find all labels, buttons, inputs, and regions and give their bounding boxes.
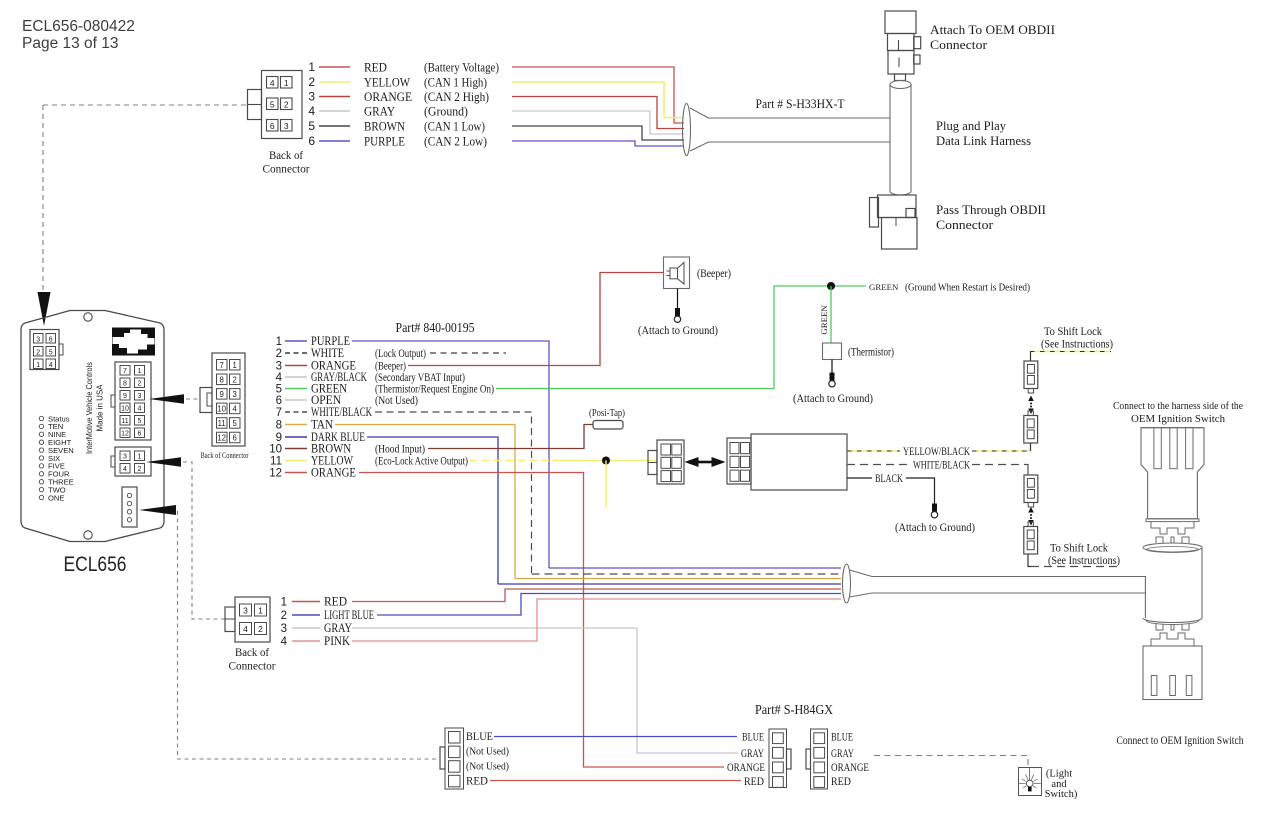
svg-text:LIGHT BLUE: LIGHT BLUE bbox=[324, 608, 374, 622]
wire BROWN pin5 to harness boot bbox=[512, 126, 684, 140]
svg-text:11: 11 bbox=[218, 419, 226, 428]
ECL656 4-pin port pins 4/2 bbox=[120, 464, 130, 474]
S-H84GX right pin 1 bbox=[814, 733, 825, 744]
S-H84GX connector right bbox=[811, 729, 828, 789]
arrow pointing down to ECL656 6-pin port bbox=[38, 292, 51, 326]
svg-text:6: 6 bbox=[233, 434, 237, 443]
svg-text:4: 4 bbox=[270, 78, 275, 88]
wire WHITE/BLACK from relay bbox=[847, 464, 910, 466]
ignition switch cylinder bbox=[1143, 543, 1202, 552]
svg-text:2: 2 bbox=[308, 75, 315, 89]
svg-text:(Not Used): (Not Used) bbox=[375, 393, 418, 407]
svg-text:4: 4 bbox=[49, 362, 53, 369]
svg-text:Connect to OEM Ignition Switch: Connect to OEM Ignition Switch bbox=[1117, 735, 1244, 747]
ignition switch slot bbox=[1186, 676, 1192, 696]
svg-text:RED: RED bbox=[466, 776, 488, 788]
ECL656 6-pin port pin 4 bbox=[46, 359, 56, 369]
ECL656 6-pin port pin 3 bbox=[34, 334, 44, 344]
P4 pin 4 bbox=[449, 775, 461, 787]
svg-text:Back of Connector: Back of Connector bbox=[201, 451, 249, 460]
harness trumpet top line bbox=[690, 108, 890, 118]
svg-text:(CAN 2 Low): (CAN 2 Low) bbox=[424, 134, 487, 148]
ECL656 12-pin port pins 7/1 bbox=[120, 366, 130, 376]
svg-text:9: 9 bbox=[220, 390, 224, 399]
svg-text:RED: RED bbox=[744, 776, 764, 788]
T harness vertical cylinder bbox=[890, 81, 911, 89]
svg-text:YELLOW: YELLOW bbox=[364, 75, 411, 89]
wire WHITE/BLACK pin7 to main bundle bbox=[375, 412, 532, 574]
svg-text:1: 1 bbox=[284, 78, 289, 88]
svg-text:8: 8 bbox=[276, 420, 282, 432]
J1 pin 1 bbox=[281, 77, 293, 89]
svg-text:OEM Ignition Switch: OEM Ignition Switch bbox=[1131, 413, 1225, 425]
S-H84GX left pin 1 bbox=[773, 733, 784, 744]
pass-through OBDII connector (bottom of T) bbox=[870, 198, 879, 228]
arrow to 12-pin connector bbox=[149, 394, 184, 403]
wire YELLOW pin2 to harness boot bbox=[512, 82, 684, 118]
svg-text:(Not Used): (Not Used) bbox=[466, 747, 509, 758]
svg-text:Back of: Back of bbox=[235, 647, 269, 659]
svg-text:9: 9 bbox=[276, 432, 282, 444]
ECL656 4-pin port bbox=[115, 447, 151, 476]
svg-text:3: 3 bbox=[308, 90, 315, 104]
shift lock connector C bbox=[1024, 475, 1038, 503]
ECL656 4-pin port pins 3/1 bbox=[120, 451, 130, 461]
ECL656 4-hole diagnostic port bbox=[122, 487, 137, 527]
svg-text:3: 3 bbox=[243, 606, 248, 616]
relay module 6-pin connector (right) bbox=[727, 438, 751, 484]
svg-text:Connector: Connector bbox=[936, 217, 994, 232]
svg-text:ORANGE: ORANGE bbox=[311, 466, 356, 480]
beeper SP1 bbox=[664, 257, 690, 289]
wire ORANGE pin3 to beeper bbox=[408, 273, 663, 366]
svg-text:GRAY: GRAY bbox=[324, 621, 352, 635]
wire GRAY P3 pin3 to S-H84GX connector bbox=[352, 628, 738, 753]
svg-text:ONE: ONE bbox=[48, 493, 64, 502]
P3 pin 4 bbox=[240, 623, 252, 635]
svg-text:PINK: PINK bbox=[324, 634, 350, 648]
connector J1 mounting tab bbox=[248, 90, 262, 120]
wire BLACK to ground bbox=[906, 478, 935, 504]
S-H84GX connector left bbox=[769, 729, 787, 788]
svg-text:3: 3 bbox=[123, 454, 127, 461]
svg-text:1: 1 bbox=[258, 606, 263, 616]
P3 pin 2 bbox=[255, 623, 267, 635]
svg-text:(See Instructions): (See Instructions) bbox=[1048, 555, 1120, 567]
svg-text:3: 3 bbox=[233, 390, 237, 399]
stub from connector D down bbox=[1028, 554, 1031, 567]
wire BLUE P4 to S-H84GX bbox=[494, 736, 737, 738]
svg-text:11: 11 bbox=[270, 456, 282, 468]
svg-text:1: 1 bbox=[233, 361, 237, 370]
P2 pins 9/3 bbox=[217, 389, 228, 400]
P4 pin 1 bbox=[449, 732, 461, 744]
svg-text:1: 1 bbox=[281, 597, 287, 609]
svg-text:6: 6 bbox=[49, 336, 53, 343]
svg-text:4: 4 bbox=[308, 104, 315, 118]
svg-text:RED: RED bbox=[364, 60, 387, 74]
left 6-pin tab bbox=[648, 451, 657, 475]
ECL656 6-pin port pin 1 bbox=[34, 359, 44, 369]
svg-text:10: 10 bbox=[217, 405, 226, 414]
wire PINK P3 pin4 to main bundle bbox=[352, 599, 841, 641]
wire RED P4 to S-H84GX bbox=[490, 780, 741, 782]
svg-text:5: 5 bbox=[49, 349, 53, 356]
P2 pins 7/1 bbox=[217, 360, 228, 371]
OEM ignition switch body (bottom) bbox=[1143, 646, 1202, 700]
wire RED pin1 to harness boot bbox=[512, 67, 684, 123]
wire DARK BLUE pin9 to main bundle bbox=[367, 437, 498, 584]
svg-text:12: 12 bbox=[269, 468, 282, 480]
svg-text:2: 2 bbox=[138, 381, 142, 388]
wire BROWN pin10 hood input to posi-tap bbox=[428, 425, 593, 449]
svg-text:BLACK: BLACK bbox=[875, 473, 903, 485]
wire WHITE/BLACK dashed to shift lock (bottom) bbox=[1031, 566, 1118, 568]
svg-text:ORANGE: ORANGE bbox=[727, 762, 765, 774]
svg-text:YELLOW/BLACK: YELLOW/BLACK bbox=[903, 446, 971, 458]
P2 pins 8/2 bbox=[217, 374, 228, 385]
svg-text:(See Instructions): (See Instructions) bbox=[1041, 339, 1113, 351]
ECL656 12-pin port pins 12/6 bbox=[120, 428, 130, 438]
ECL656 12-pin port tab bbox=[111, 395, 115, 407]
ECL656 screw hole bottom bbox=[84, 531, 92, 539]
svg-text:4: 4 bbox=[233, 405, 238, 414]
svg-text:4: 4 bbox=[276, 372, 283, 384]
J1 pin 2 bbox=[281, 98, 293, 110]
OEM ignition harness connector (top) bbox=[1141, 428, 1204, 519]
svg-text:12: 12 bbox=[217, 434, 226, 443]
svg-text:PURPLE: PURPLE bbox=[364, 134, 405, 148]
svg-text:Data Link Harness: Data Link Harness bbox=[936, 133, 1031, 148]
ECL656 6-pin port tab bbox=[59, 344, 63, 355]
beeper ground terminal bbox=[675, 308, 680, 316]
svg-text:GRAY: GRAY bbox=[831, 748, 854, 760]
T harness neck bbox=[895, 74, 906, 81]
wire ORANGE pin3 to harness boot bbox=[512, 97, 684, 129]
svg-text:3: 3 bbox=[36, 336, 40, 343]
ECL656 screw hole top bbox=[84, 313, 92, 321]
svg-text:BLUE: BLUE bbox=[831, 732, 853, 744]
mating arrows between connectors bbox=[697, 461, 713, 464]
wire ORANGE pin12 to S-H84GX connector bbox=[359, 473, 724, 768]
svg-text:(CAN 1 Low): (CAN 1 Low) bbox=[424, 119, 485, 133]
right 6-pin pin row 2 bbox=[730, 456, 739, 467]
thermistor ground terminal bbox=[830, 373, 835, 381]
connector P2 tab bbox=[200, 388, 212, 413]
left 6-pin pin row 2 bbox=[661, 457, 671, 468]
svg-text:Connector: Connector bbox=[930, 37, 988, 52]
ECL656 12-pin port bbox=[115, 362, 151, 440]
wire LIGHT BLUE P3 pin2 to main bundle bbox=[377, 594, 841, 616]
svg-text:(Eco-Lock Active Output): (Eco-Lock Active Output) bbox=[375, 454, 468, 468]
right 6-pin pin row 1 bbox=[730, 443, 739, 454]
svg-text:8: 8 bbox=[123, 381, 127, 388]
svg-text:4: 4 bbox=[243, 624, 248, 634]
wire YELLOW/BLACK dashed to shift lock (top) bbox=[1030, 351, 1111, 353]
svg-text:(Attach to Ground): (Attach to Ground) bbox=[638, 323, 718, 337]
svg-text:(Attach to Ground): (Attach to Ground) bbox=[895, 520, 975, 534]
svg-text:5: 5 bbox=[270, 99, 275, 109]
wire WHITE/BLACK in bundle bbox=[532, 573, 842, 575]
ECL656 6-pin port pin 5 bbox=[46, 347, 56, 357]
svg-text:RED: RED bbox=[324, 595, 347, 609]
ignition terminals comb (bottom) bbox=[1151, 633, 1194, 646]
OEM OBDII connector (top of T) bbox=[885, 11, 916, 34]
mating arrows C-D bbox=[1028, 507, 1034, 513]
svg-text:Connector: Connector bbox=[263, 164, 310, 176]
ECL656 6-pin port pin 2 bbox=[34, 347, 44, 357]
svg-text:4: 4 bbox=[281, 636, 288, 648]
svg-text:ORANGE: ORANGE bbox=[364, 90, 412, 104]
arrow to 4-hole port bbox=[139, 505, 176, 515]
svg-text:8: 8 bbox=[220, 375, 224, 384]
svg-text:2: 2 bbox=[138, 466, 142, 473]
P3 pin 1 bbox=[255, 604, 267, 616]
svg-text:(CAN 2 High): (CAN 2 High) bbox=[424, 90, 489, 104]
thermistor ground lead bbox=[831, 360, 833, 374]
svg-text:7: 7 bbox=[123, 368, 127, 375]
arrow to 4-pin connector bbox=[146, 457, 181, 466]
harness trumpet bottom line bbox=[690, 142, 890, 151]
ignition connector terminal plate bbox=[1146, 519, 1199, 522]
svg-text:Part# S-H84GX: Part# S-H84GX bbox=[755, 702, 833, 717]
posi-tap connector bbox=[593, 421, 623, 430]
beeper ground lead bbox=[677, 289, 679, 310]
connector P4 4-pin bbox=[445, 728, 464, 789]
svg-text:Switch): Switch) bbox=[1045, 789, 1078, 800]
P3 pin 3 bbox=[240, 604, 252, 616]
junction node on yellow wire bbox=[602, 457, 610, 465]
svg-text:To Shift Lock: To Shift Lock bbox=[1050, 543, 1108, 555]
svg-text:(Battery Voltage): (Battery Voltage) bbox=[424, 60, 499, 74]
svg-text:6: 6 bbox=[276, 395, 282, 407]
ECL656 6-pin port pin 6 bbox=[46, 334, 56, 344]
S-H84GX right tab bbox=[806, 749, 811, 769]
left 6-pin pin row 1 bbox=[661, 444, 671, 455]
svg-text:2: 2 bbox=[281, 610, 287, 622]
wire PURPLE in bundle bbox=[549, 567, 841, 569]
dashed link ECL656 4-pin port to back-of-connector P3 bbox=[183, 462, 225, 619]
bundle boot (cable entry) bbox=[843, 564, 851, 603]
ECL656 4-pin port tab bbox=[111, 456, 115, 467]
P2 pins 10/4 bbox=[217, 403, 228, 414]
ignition switch slot bbox=[1170, 676, 1176, 696]
ignition connector prong slot bbox=[1170, 428, 1177, 469]
P4 pin 3 bbox=[449, 761, 461, 773]
svg-text:1: 1 bbox=[36, 362, 40, 369]
svg-text:(Posi-Tap): (Posi-Tap) bbox=[589, 407, 625, 419]
svg-text:9: 9 bbox=[123, 393, 127, 400]
svg-text:6: 6 bbox=[308, 134, 315, 148]
svg-text:1: 1 bbox=[308, 60, 315, 74]
wire TAN in bundle bbox=[515, 578, 841, 580]
svg-text:7: 7 bbox=[220, 361, 224, 370]
svg-text:RED: RED bbox=[831, 776, 851, 788]
connector P3 4-pin back of connector bbox=[235, 597, 270, 642]
svg-text:10: 10 bbox=[121, 406, 129, 413]
svg-text:ECL656: ECL656 bbox=[64, 552, 127, 576]
wire DARK BLUE in bundle bbox=[498, 583, 841, 585]
wire GREEN pin5 to thermistor net bbox=[496, 286, 866, 389]
svg-text:(Beeper): (Beeper) bbox=[697, 266, 731, 280]
connector P2 12-pin back of connector bbox=[212, 353, 245, 446]
wire YELLOW stub down from junction bbox=[605, 461, 607, 508]
svg-text:(Ground When Restart is Desire: (Ground When Restart is Desired) bbox=[905, 282, 1030, 294]
S-H84GX left pin 2 bbox=[773, 747, 784, 758]
wire PURPLE pin1 to main bundle bbox=[352, 341, 549, 568]
ECL656 6-pin port bbox=[30, 330, 59, 370]
ECL656 12-pin port pins 10/4 bbox=[120, 403, 130, 413]
InterMotive logo bbox=[113, 328, 155, 355]
svg-text:GRAY: GRAY bbox=[364, 104, 395, 118]
svg-text:3: 3 bbox=[284, 121, 289, 131]
wire GREEN junction down to thermistor bbox=[830, 286, 832, 343]
mating arrows A-B bbox=[1028, 396, 1034, 402]
wire WHITE pin2 dashed stub bbox=[430, 352, 506, 354]
svg-text:Pass Through OBDII: Pass Through OBDII bbox=[936, 202, 1046, 217]
wire YELLOW pin11 to relay connector bbox=[553, 460, 657, 462]
svg-text:Connect to the harness side of: Connect to the harness side of the bbox=[1113, 400, 1243, 412]
svg-text:7: 7 bbox=[276, 407, 282, 419]
svg-text:GRAY: GRAY bbox=[741, 748, 764, 760]
svg-text:BLUE: BLUE bbox=[742, 732, 764, 744]
svg-text:5: 5 bbox=[308, 119, 315, 133]
ignition switch slot bbox=[1151, 676, 1157, 696]
connector J1 6-pin back of connector bbox=[262, 71, 303, 139]
svg-text:6: 6 bbox=[138, 431, 142, 438]
shift lock connector B bbox=[1024, 416, 1038, 444]
ignition connector prong slot bbox=[1154, 428, 1161, 469]
wire RED P3 pin1 to main bundle bbox=[352, 589, 841, 602]
dashed link from ECL656 to connector J1 bbox=[43, 104, 247, 106]
P2 pins 11/5 bbox=[217, 418, 228, 429]
J1 pin 4 bbox=[267, 77, 279, 89]
svg-text:To Shift Lock: To Shift Lock bbox=[1044, 326, 1102, 338]
svg-text:Made in USA: Made in USA bbox=[95, 384, 105, 431]
wire TAN pin8 to main bundle bbox=[335, 425, 515, 579]
svg-text:3: 3 bbox=[138, 393, 142, 400]
right 6-pin pin row 3 bbox=[730, 470, 739, 481]
svg-text:10: 10 bbox=[269, 444, 282, 456]
ECL656 12-pin port pins 8/2 bbox=[120, 378, 130, 388]
J1 pin 6 bbox=[267, 120, 279, 132]
svg-text:GREEN: GREEN bbox=[819, 305, 829, 335]
relay harness 6-pin connector (left) bbox=[657, 440, 684, 484]
S-H84GX right pin 2 bbox=[814, 747, 825, 758]
wire GRAY dashed to light and switch bbox=[874, 756, 1028, 769]
svg-text:(Thermistor): (Thermistor) bbox=[848, 345, 894, 359]
svg-text:Part # S-H33HX-T: Part # S-H33HX-T bbox=[756, 96, 845, 111]
svg-text:BROWN: BROWN bbox=[364, 119, 405, 133]
connector P3 tab bbox=[225, 607, 235, 632]
svg-text:BLUE: BLUE bbox=[466, 731, 493, 743]
ECL656 status LEDs bbox=[39, 416, 43, 420]
black wire ground terminal bbox=[932, 504, 937, 512]
junction node on green wire bbox=[827, 282, 835, 290]
shift lock connector A bbox=[1024, 361, 1038, 389]
svg-text:3: 3 bbox=[276, 361, 282, 373]
svg-text:WHITE/BLACK: WHITE/BLACK bbox=[913, 460, 970, 472]
P4 pin 2 bbox=[449, 746, 461, 758]
wire WHITE/BLACK to shift lock connector bbox=[972, 464, 1024, 466]
ECL656 12-pin port pins 11/5 bbox=[120, 416, 130, 426]
ECL656 module outline bbox=[21, 311, 164, 542]
svg-text:4: 4 bbox=[123, 466, 127, 473]
svg-text:5: 5 bbox=[233, 419, 238, 428]
svg-text:2: 2 bbox=[284, 99, 289, 109]
svg-text:2: 2 bbox=[258, 624, 263, 634]
svg-text:(Not Used): (Not Used) bbox=[466, 762, 509, 773]
S-H84GX left tab bbox=[787, 749, 792, 769]
svg-text:(Attach to Ground): (Attach to Ground) bbox=[793, 391, 873, 405]
shift lock connector D bbox=[1024, 527, 1038, 555]
left 6-pin pin row 3 bbox=[661, 471, 671, 482]
ignition connector prong slot bbox=[1186, 428, 1193, 469]
S-H84GX right pin 4 bbox=[814, 777, 825, 788]
svg-text:6: 6 bbox=[270, 121, 275, 131]
svg-text:5: 5 bbox=[276, 384, 282, 396]
harness boot (cable entry) bbox=[683, 104, 691, 156]
svg-text:ORANGE: ORANGE bbox=[831, 762, 869, 774]
wire YELLOW pin11 eco-lock output dashed segment bbox=[470, 460, 553, 462]
svg-text:3: 3 bbox=[281, 623, 287, 635]
thermistor TH1 bbox=[823, 343, 842, 360]
svg-text:InterMotive Vehicle Controls: InterMotive Vehicle Controls bbox=[84, 362, 94, 454]
svg-text:12: 12 bbox=[121, 431, 129, 438]
svg-text:1: 1 bbox=[276, 336, 282, 348]
svg-text:11: 11 bbox=[121, 418, 128, 425]
stub from connector B to yellow/black wire bbox=[1030, 443, 1032, 451]
svg-text:2: 2 bbox=[233, 375, 237, 384]
wire BLACK from relay bbox=[847, 477, 872, 479]
wire YELLOW/BLACK from relay bbox=[847, 450, 900, 452]
harness line bottom to ignition switch bbox=[850, 593, 1146, 597]
J1 pin 5 bbox=[267, 98, 279, 110]
P2 pins 12/6 bbox=[217, 432, 228, 443]
light and switch icon bbox=[1019, 768, 1042, 796]
svg-text:4: 4 bbox=[138, 406, 142, 413]
svg-text:Attach To OEM OBDII: Attach To OEM OBDII bbox=[930, 22, 1055, 37]
connector P4 tab bbox=[440, 747, 445, 769]
ECL656 12-pin port pins 9/3 bbox=[120, 391, 130, 401]
wire YELLOW/BLACK to shift lock tap bbox=[972, 450, 1030, 452]
svg-text:(Ground): (Ground) bbox=[424, 104, 468, 118]
harness line top to ignition switch bbox=[850, 570, 1146, 618]
wire PURPLE pin6 to harness boot bbox=[512, 141, 684, 146]
S-H84GX right pin 3 bbox=[814, 762, 825, 773]
svg-text:Page 13 of 13: Page 13 of 13 bbox=[22, 35, 119, 52]
S-H84GX left pin 4 bbox=[773, 777, 784, 788]
S-H84GX left pin 3 bbox=[773, 762, 784, 773]
svg-text:1: 1 bbox=[138, 454, 142, 461]
dashed link ECL656 4-hole port to bottom connector bbox=[178, 511, 441, 759]
svg-text:Plug and Play: Plug and Play bbox=[936, 118, 1006, 133]
wire GRAY pin4 to harness boot bbox=[512, 111, 684, 134]
J1 pin 3 bbox=[281, 120, 293, 132]
svg-text:5: 5 bbox=[138, 418, 142, 425]
svg-text:(CAN 1 High): (CAN 1 High) bbox=[424, 75, 487, 89]
OBDII connector lower shell bbox=[888, 51, 914, 75]
svg-text:Back of: Back of bbox=[269, 150, 303, 162]
ignition terminals comb (top) bbox=[1151, 522, 1194, 534]
svg-text:1: 1 bbox=[138, 368, 142, 375]
svg-text:2: 2 bbox=[36, 349, 40, 356]
svg-text:2: 2 bbox=[276, 348, 282, 360]
svg-text:GREEN: GREEN bbox=[869, 282, 899, 292]
svg-text:ECL656-080422: ECL656-080422 bbox=[22, 18, 135, 35]
relay module box bbox=[751, 434, 847, 490]
svg-text:Part# 840-00195: Part# 840-00195 bbox=[396, 320, 475, 335]
